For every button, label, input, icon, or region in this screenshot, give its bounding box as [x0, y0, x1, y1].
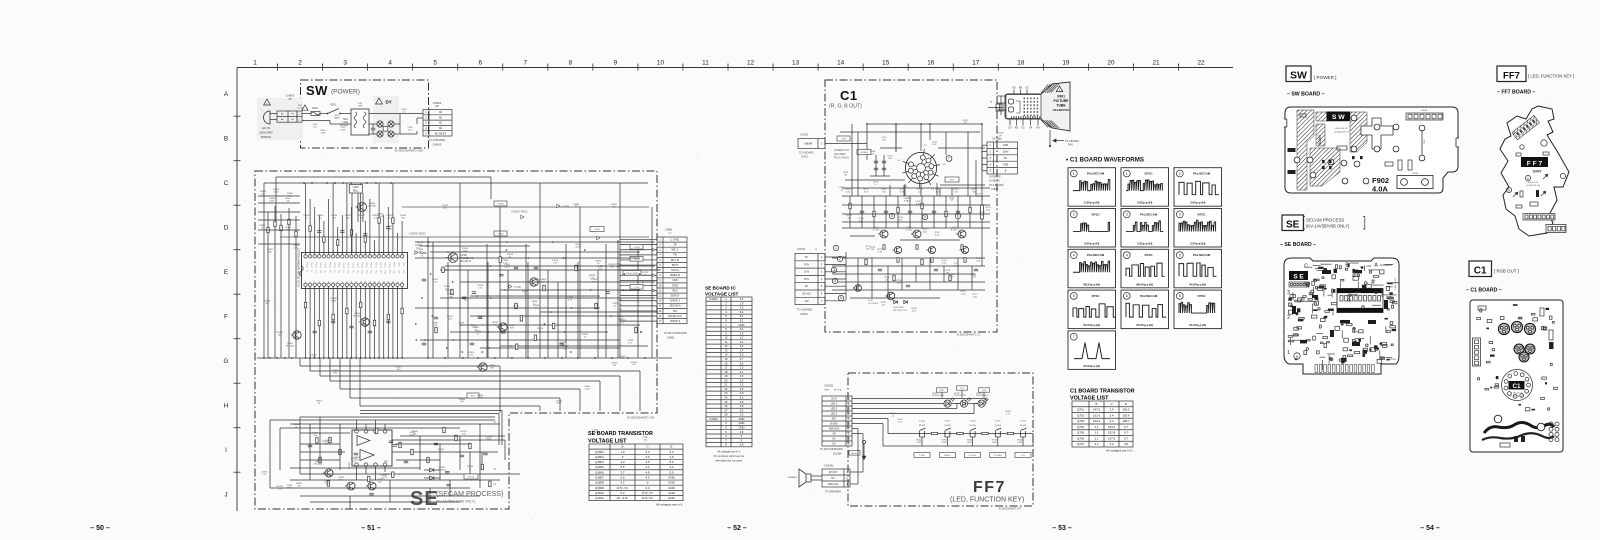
svg-text:64.0Vp-p (H): 64.0Vp-p (H) — [1083, 323, 1100, 327]
svg-text:2SC2462: 2SC2462 — [286, 345, 296, 347]
svg-text:20: 20 — [392, 282, 394, 284]
C1 board label inverted — [1509, 381, 1525, 390]
SW board left dark bars — [1288, 148, 1296, 152]
svg-text:0.022: 0.022 — [269, 200, 275, 202]
svg-text:1-694-434-13: 1-694-434-13 — [1334, 128, 1348, 130]
waveform cell 6 PAL/SECAM — [1121, 290, 1169, 329]
wire B GND row — [852, 423, 883, 425]
svg-text:P6: P6 — [328, 271, 330, 273]
warning triangle fuse — [302, 105, 308, 110]
svg-text:4.8: 4.8 — [740, 443, 744, 447]
svg-text:1/2W: 1/2W — [378, 216, 383, 218]
svg-text:1W: 1W — [950, 200, 953, 202]
FF7 board LED arrows — [1543, 175, 1547, 179]
SE right half extra horizontals — [415, 241, 655, 243]
svg-text:F901: F901 — [312, 106, 318, 110]
svg-text:9: 9 — [614, 60, 618, 67]
connector CN1301 table — [822, 396, 852, 446]
SE board traces — [1328, 355, 1330, 364]
svg-text:LED 2: LED 2 — [831, 408, 838, 410]
svg-text:TO A BOARD: TO A BOARD — [799, 152, 814, 155]
svg-text:5: 5 — [323, 282, 324, 284]
svg-text:SCREEN: SCREEN — [860, 152, 869, 154]
svg-text:12: 12 — [747, 60, 755, 67]
svg-text:2SC2462: 2SC2462 — [368, 205, 378, 207]
svg-text:3.9: 3.9 — [740, 306, 744, 310]
fuse F901 — [311, 112, 320, 116]
svg-text:S-1306: S-1306 — [1020, 421, 1026, 423]
svg-text:PIN 17: PIN 17 — [356, 263, 358, 268]
IC1802 area components — [399, 442, 401, 448]
svg-text:AC: AC — [281, 113, 284, 116]
svg-text:– C1 BOARD –: – C1 BOARD – — [1466, 288, 1502, 294]
SE board circled H mark — [1294, 353, 1300, 359]
svg-text:GND: GND — [1003, 144, 1009, 147]
svg-text:B: B — [1096, 402, 1098, 406]
C1 board top transistors — [1498, 323, 1509, 334]
svg-text:2.5Vp-p (H): 2.5Vp-p (H) — [1190, 242, 1205, 246]
svg-text:154.2: 154.2 — [1108, 425, 1116, 429]
svg-text:2: 2 — [310, 282, 311, 284]
svg-text:4.7k: 4.7k — [1006, 413, 1010, 415]
svg-text:3.9: 3.9 — [740, 391, 744, 395]
svg-text:PIN 20: PIN 20 — [342, 263, 344, 268]
svg-text:FF7: FF7 — [1503, 71, 1520, 82]
svg-text:12V BUFF: 12V BUFF — [868, 303, 879, 305]
svg-text:R OUT: R OUT — [873, 229, 880, 231]
svg-text:2SC: 2SC — [378, 481, 383, 483]
diodes D704 RGB protector — [894, 300, 898, 303]
connector CN704 table — [795, 254, 825, 305]
svg-text:PAL/SECAM: PAL/SECAM — [1140, 212, 1158, 216]
C1 lower mesh — [832, 257, 985, 259]
svg-text:AC: AC — [281, 118, 284, 121]
svg-text:Q702: Q702 — [1077, 413, 1084, 417]
svg-text:CN1302: CN1302 — [824, 464, 834, 468]
svg-text:VOLTAGE LIST: VOLTAGE LIST — [705, 292, 739, 297]
svg-text:2.4: 2.4 — [645, 465, 649, 469]
svg-text:GND: GND — [668, 481, 674, 485]
svg-text:11: 11 — [702, 60, 709, 67]
svg-text:POWER: POWER — [994, 455, 1003, 457]
svg-text:[ LED, FUNCTION KEY ]: [ LED, FUNCTION KEY ] — [1528, 74, 1574, 79]
wire KEY row — [852, 418, 888, 420]
svg-text:Q707: Q707 — [1077, 442, 1084, 446]
svg-text:GND: GND — [739, 417, 745, 421]
IC1802 dual op amp — [352, 430, 392, 466]
svg-text:5.4: 5.4 — [740, 310, 744, 314]
svg-text:3.8: 3.8 — [740, 404, 744, 408]
svg-text:GNB: GNB — [673, 280, 678, 282]
svg-text:I: I — [225, 447, 227, 454]
svg-text:68.0Vp-p (H): 68.0Vp-p (H) — [1136, 282, 1153, 286]
svg-text:SECAM OUT: SECAM OUT — [668, 315, 682, 318]
SE board tiny circles — [1362, 306, 1365, 309]
svg-text:SCREEN VOL: SCREEN VOL — [834, 149, 850, 152]
svg-text:1: 1 — [253, 60, 257, 67]
FF7 board connector strip hatched — [1512, 115, 1540, 139]
svg-text:I BEAM: I BEAM — [804, 142, 812, 145]
svg-text:1.9: 1.9 — [620, 450, 624, 454]
posistor R901 — [383, 127, 388, 132]
C1 board misc small components — [1496, 376, 1499, 379]
svg-text:4.8: 4.8 — [740, 430, 744, 434]
svg-text:CN503: CN503 — [991, 188, 999, 191]
transistor Q708 — [855, 285, 862, 292]
svg-text:PB C IN: PB C IN — [671, 260, 680, 262]
line filter T901 — [351, 109, 369, 135]
svg-text:C1: C1 — [1474, 266, 1487, 277]
svg-text:2.4: 2.4 — [740, 331, 744, 335]
SE mid extra components — [543, 285, 545, 291]
svg-text:S-1302: S-1302 — [919, 421, 925, 423]
wires CN1303 up to CN1301 — [850, 471, 863, 473]
svg-text:Q1806: Q1806 — [595, 470, 604, 474]
FF7 board outline — [1500, 106, 1569, 236]
wire LED2 row — [852, 408, 957, 410]
boxed net label L1804 — [590, 227, 604, 232]
FF7 board bottom connector — [1546, 225, 1566, 233]
svg-text:V901: V901 — [1057, 95, 1065, 99]
svg-text:NTSC: NTSC — [1091, 212, 1100, 216]
svg-text:P9: P9 — [342, 271, 344, 273]
svg-text:13: 13 — [792, 60, 800, 67]
svg-text:A34JBU70C: A34JBU70C — [1052, 108, 1070, 112]
svg-text:NC: NC — [832, 443, 836, 445]
svg-text:Q703: Q703 — [1077, 419, 1084, 423]
svg-text:2.3: 2.3 — [740, 336, 744, 340]
svg-text:PAL/SECAM: PAL/SECAM — [1087, 253, 1105, 257]
svg-text:13: 13 — [360, 282, 362, 284]
boxed label AUDIO — [849, 451, 860, 456]
C1 board mid transistors — [1514, 344, 1524, 354]
svg-text:0.022: 0.022 — [556, 403, 562, 405]
speaker SP1301 — [799, 469, 811, 487]
svg-text:0.7: 0.7 — [1124, 431, 1128, 435]
svg-text:– SW BOARD –: – SW BOARD – — [1287, 92, 1325, 98]
svg-text:4.2: 4.2 — [620, 481, 624, 485]
svg-text:TO MAT S/B BOARD: TO MAT S/B BOARD — [820, 448, 843, 451]
svg-text:(R, G, B OUT): (R, G, B OUT) — [829, 104, 862, 110]
LED stub wires up — [941, 392, 943, 397]
svg-text:3: 3 — [1179, 213, 1181, 217]
svg-text:6P: 6P — [435, 104, 439, 108]
svg-text:CN703: CN703 — [997, 133, 1005, 135]
svg-text:152.8: 152.8 — [1108, 431, 1116, 435]
C1 board trace pads — [1494, 415, 1502, 423]
svg-text:KB: KB — [1019, 87, 1023, 90]
svg-text:P14: P14 — [365, 271, 367, 274]
svg-text:4.8: 4.8 — [740, 400, 744, 404]
svg-text:VIDEO IN: VIDEO IN — [670, 275, 680, 277]
warning triangle AC — [264, 99, 271, 105]
transistor Q1805 — [530, 278, 538, 286]
svg-text:B-3362354A0F1-SW.: B-3362354A0F1-SW. — [395, 149, 424, 153]
C1 board top small parts — [1478, 306, 1486, 310]
svg-text:VOLTAGE LIST: VOLTAGE LIST — [1070, 396, 1109, 402]
svg-text:Q1809: Q1809 — [595, 486, 604, 490]
svg-text:TO A BOARD: TO A BOARD — [989, 184, 1004, 187]
circled numbers input — [833, 245, 838, 250]
svg-text:1: 1 — [1073, 172, 1075, 176]
svg-text:MENU: MENU — [944, 455, 951, 457]
arrow C R5 labels — [415, 251, 418, 255]
svg-text:0.022: 0.022 — [576, 246, 582, 248]
svg-text:2.0Vp-p (H): 2.0Vp-p (H) — [1084, 242, 1099, 246]
svg-text:7: 7 — [1073, 335, 1075, 339]
waveform cell 4 NTSC — [1121, 249, 1169, 287]
svg-text:C809: C809 — [841, 139, 847, 141]
svg-text:TO SPEAKER: TO SPEAKER — [825, 491, 841, 494]
svg-text:2: 2 — [1179, 172, 1181, 176]
svg-text:PIN 15: PIN 15 — [365, 263, 367, 268]
svg-text:B: B — [1508, 189, 1510, 193]
svg-text:12V: 12V — [804, 300, 809, 303]
picture tube pin dot grid — [1024, 98, 1026, 100]
svg-text:Q701: Q701 — [1077, 408, 1084, 412]
switch ground rail — [883, 445, 1033, 447]
svg-text:(VIDEO RED): (VIDEO RED) — [626, 273, 639, 275]
C1 top rail — [867, 123, 982, 125]
svg-text:50/60Hz: 50/60Hz — [261, 135, 272, 139]
svg-text:0.2: 0.2 — [620, 491, 624, 495]
C1 board crt socket ring — [1502, 370, 1533, 401]
transistor Q1802 — [293, 331, 301, 339]
svg-text:CHECK 1: CHECK 1 — [670, 301, 681, 303]
svg-text:– 52 –: – 52 – — [727, 525, 747, 532]
svg-text:H: H — [990, 101, 992, 104]
svg-text:AC IN: AC IN — [262, 126, 270, 130]
svg-text:17: 17 — [378, 282, 380, 284]
svg-text:(1K): (1K) — [998, 139, 1002, 141]
svg-text:PIN 21: PIN 21 — [338, 263, 340, 268]
svg-text:C (R5): C (R5) — [634, 287, 640, 289]
C1 board left connector — [1473, 338, 1481, 366]
svg-text:SP: SP — [673, 244, 677, 246]
svg-text:1.1: 1.1 — [1094, 425, 1098, 429]
svg-text:NC: NC — [832, 438, 836, 440]
svg-text:CN603: CN603 — [433, 143, 442, 147]
SE board IC voltage table — [706, 297, 752, 447]
svg-text:6: 6 — [1179, 294, 1181, 298]
transistor Q1803 — [357, 202, 366, 211]
svg-text:S1306: S1306 — [1020, 425, 1027, 427]
wires C1 to tube — [997, 95, 1006, 97]
SE left column wires — [267, 212, 269, 358]
svg-text:KG: KG — [931, 188, 934, 190]
svg-text:described are not used.: described are not used. — [715, 459, 742, 463]
svg-text:6: 6 — [328, 282, 329, 284]
svg-text:P22: P22 — [402, 271, 404, 274]
svg-text:2.5: 2.5 — [740, 383, 744, 387]
svg-text:AUDIO: AUDIO — [851, 452, 858, 455]
svg-text:Q1802: Q1802 — [595, 455, 604, 459]
svg-text:(1-694-434-11): (1-694-434-11) — [1334, 131, 1349, 133]
page grid left ruler line — [236, 68, 238, 512]
C1 transistor voltage table — [1072, 401, 1133, 447]
waveform cell 5 NTSC — [1068, 290, 1116, 329]
svg-text:C SYNC: C SYNC — [671, 239, 680, 241]
picture tube pin strip — [1011, 116, 1012, 118]
wire tube anode down — [1049, 130, 1051, 146]
svg-text:19: 19 — [387, 282, 389, 284]
transistor Q701 R out — [880, 230, 888, 238]
svg-text:CN906: CN906 — [1421, 110, 1428, 112]
svg-text:NTSC: NTSC — [1144, 172, 1153, 176]
svg-text:• C1 BOARD WAVEFORMS: • C1 BOARD WAVEFORMS — [1066, 157, 1144, 164]
SE board label inverted — [1289, 271, 1308, 280]
svg-text:NC: NC — [1004, 157, 1008, 160]
svg-text:GND: GND — [739, 425, 745, 429]
connector CN904 table — [423, 110, 452, 137]
waveform cell 2 PAL/SECAM — [1174, 168, 1222, 207]
svg-text:1: 1 — [305, 282, 306, 284]
svg-text:15: 15 — [882, 60, 890, 67]
svg-text:PROTECTOR: PROTECTOR — [893, 310, 907, 312]
svg-text:C (R50): C (R50) — [633, 247, 640, 249]
svg-text:[ POWER ]: [ POWER ] — [1314, 75, 1336, 80]
svg-text:64.0Vp-p (H): 64.0Vp-p (H) — [1083, 364, 1100, 368]
svg-text:SEW 5V: SEW 5V — [671, 295, 680, 297]
svg-text:P21: P21 — [397, 271, 399, 274]
svg-text:S-1305: S-1305 — [995, 421, 1001, 423]
svg-text:Q705: Q705 — [1077, 431, 1084, 435]
svg-text:/B TO B: /B TO B — [834, 390, 842, 392]
transistor Q706 — [961, 246, 968, 253]
svg-text:SLB-25YY1F1: SLB-25YY1F1 — [954, 395, 966, 397]
svg-text:2.3: 2.3 — [740, 366, 744, 370]
svg-text:B: B — [622, 445, 624, 449]
wire top rail 2 — [264, 182, 648, 184]
svg-text:1W: 1W — [844, 174, 847, 176]
page grid top ruler line — [237, 67, 1233, 69]
svg-text:1/2W: 1/2W — [287, 487, 292, 489]
svg-text:– 54 –: – 54 – — [1420, 525, 1440, 532]
svg-text:(KV-14V5B/V6B ONLY): (KV-14V5B/V6B ONLY) — [1306, 224, 1350, 229]
svg-text:6: 6 — [478, 60, 482, 67]
SE lower extra components — [327, 481, 329, 487]
svg-text:PIN 9: PIN 9 — [393, 263, 395, 267]
CRT socket circle — [905, 152, 936, 183]
svg-text:F: F — [224, 314, 228, 321]
svg-text:(0) <4.9>: (0) <4.9> — [617, 496, 629, 500]
svg-text:PAL/SECAM: PAL/SECAM — [1087, 172, 1105, 176]
svg-text:CN1801: CN1801 — [1389, 359, 1397, 361]
svg-text:SE: SE — [1286, 220, 1300, 231]
svg-text:PB: PB — [673, 255, 677, 257]
svg-text:F1810: F1810 — [468, 477, 475, 479]
svg-text:VOL: VOL — [1021, 455, 1026, 457]
svg-text:VIDEO RED: VIDEO RED — [409, 232, 426, 236]
svg-text:C (R5): C (R5) — [514, 286, 521, 289]
picture tube V901 outline — [1005, 82, 1070, 131]
SE extra junction dots — [564, 331, 566, 333]
svg-text:1: 1 — [1126, 172, 1128, 176]
svg-text:FF7: FF7 — [973, 479, 1006, 496]
svg-text:SONY: SONY — [1318, 134, 1322, 145]
svg-text:(G-314-011-13): (G-314-011-13) — [1510, 395, 1524, 397]
C1 board thick traces — [1484, 423, 1554, 434]
svg-text:CH SEL: CH SEL — [969, 455, 978, 457]
svg-text:11: 11 — [351, 282, 353, 284]
wire B5V row — [852, 398, 986, 400]
svg-text:-CHIP: -CHIP — [941, 442, 947, 444]
LED D1302 — [960, 400, 967, 407]
svg-text:B GND: B GND — [830, 423, 838, 425]
warning triangle tube — [1056, 86, 1062, 92]
svg-text:All voltages are in V.: All voltages are in V. — [1106, 449, 1133, 453]
svg-text:4: 4 — [1073, 253, 1075, 257]
svg-text:KEY: KEY — [832, 418, 837, 420]
svg-text:P20: P20 — [393, 271, 395, 274]
svg-text:S-1303: S-1303 — [945, 421, 951, 423]
svg-text:NBC C: NBC C — [671, 250, 678, 252]
ground bus — [257, 357, 672, 359]
svg-text:4: 4 — [388, 60, 392, 67]
svg-text:C1826: C1826 — [497, 234, 504, 236]
svg-text:20: 20 — [1107, 60, 1115, 67]
svg-text:PIN 27: PIN 27 — [310, 263, 312, 268]
svg-text:NTSC: NTSC — [1197, 212, 1206, 216]
wire left rail vertical — [263, 183, 265, 358]
svg-text:PIN 25: PIN 25 — [319, 263, 321, 268]
SW board pads — [1351, 115, 1357, 121]
svg-text:14: 14 — [837, 60, 845, 67]
svg-text:3.8: 3.8 — [1124, 442, 1128, 446]
svg-text:NC: NC — [439, 116, 443, 119]
C1 board bottom right grid — [1549, 422, 1553, 426]
wire switch to line filter — [340, 113, 351, 115]
bus junction dots — [263, 357, 265, 359]
svg-text:CN704: CN704 — [797, 247, 806, 251]
svg-text:NTSC: NTSC — [1091, 294, 1100, 298]
FF7 board small parts — [1516, 153, 1521, 156]
switch resistors R1302-R1305 — [931, 432, 938, 434]
waveform cell 7 H pulse — [1068, 331, 1116, 370]
svg-text:PIN 19: PIN 19 — [347, 263, 349, 268]
svg-text:SCK IN: SCK IN — [671, 270, 679, 272]
svg-text:C1: C1 — [840, 88, 858, 103]
circled 7 — [946, 156, 952, 162]
svg-text:2P: 2P — [288, 97, 292, 101]
svg-text:-CHIP: -CHIP — [916, 442, 922, 444]
svg-text:2.4: 2.4 — [740, 327, 744, 331]
audio arrow — [863, 444, 865, 458]
svg-text:All voltages are in V.: All voltages are in V. — [717, 450, 741, 454]
svg-text:CN801: CN801 — [667, 337, 675, 340]
wire LED1 row — [852, 403, 944, 405]
boxed net label E-Y — [467, 393, 479, 398]
svg-text:5: 5 — [840, 296, 842, 300]
svg-text:MAIN: MAIN — [335, 116, 341, 119]
SW board hatch left strip — [1297, 110, 1314, 190]
FF7 board misc circles — [1541, 140, 1547, 146]
C1 board bottom small parts — [1514, 436, 1518, 442]
svg-text:BELL: BELL — [353, 190, 359, 192]
svg-text:3.0: 3.0 — [740, 353, 744, 357]
svg-text:F F 7: F F 7 — [1527, 160, 1543, 167]
FF7 board circled B marks — [1525, 175, 1530, 180]
wires speaker to CN1303 — [811, 475, 822, 477]
transistor Q703 B out — [958, 230, 966, 238]
svg-text:(LED, FUNCTION KEY): (LED, FUNCTION KEY) — [950, 497, 1024, 504]
IC1801 pins bottom — [304, 283, 307, 286]
svg-text:4.3: 4.3 — [740, 344, 744, 348]
svg-text:NTSC: NTSC — [672, 285, 679, 287]
svg-text:3.2: 3.2 — [1109, 442, 1113, 446]
svg-text:8: 8 — [569, 60, 573, 67]
svg-text:P16: P16 — [374, 271, 376, 274]
